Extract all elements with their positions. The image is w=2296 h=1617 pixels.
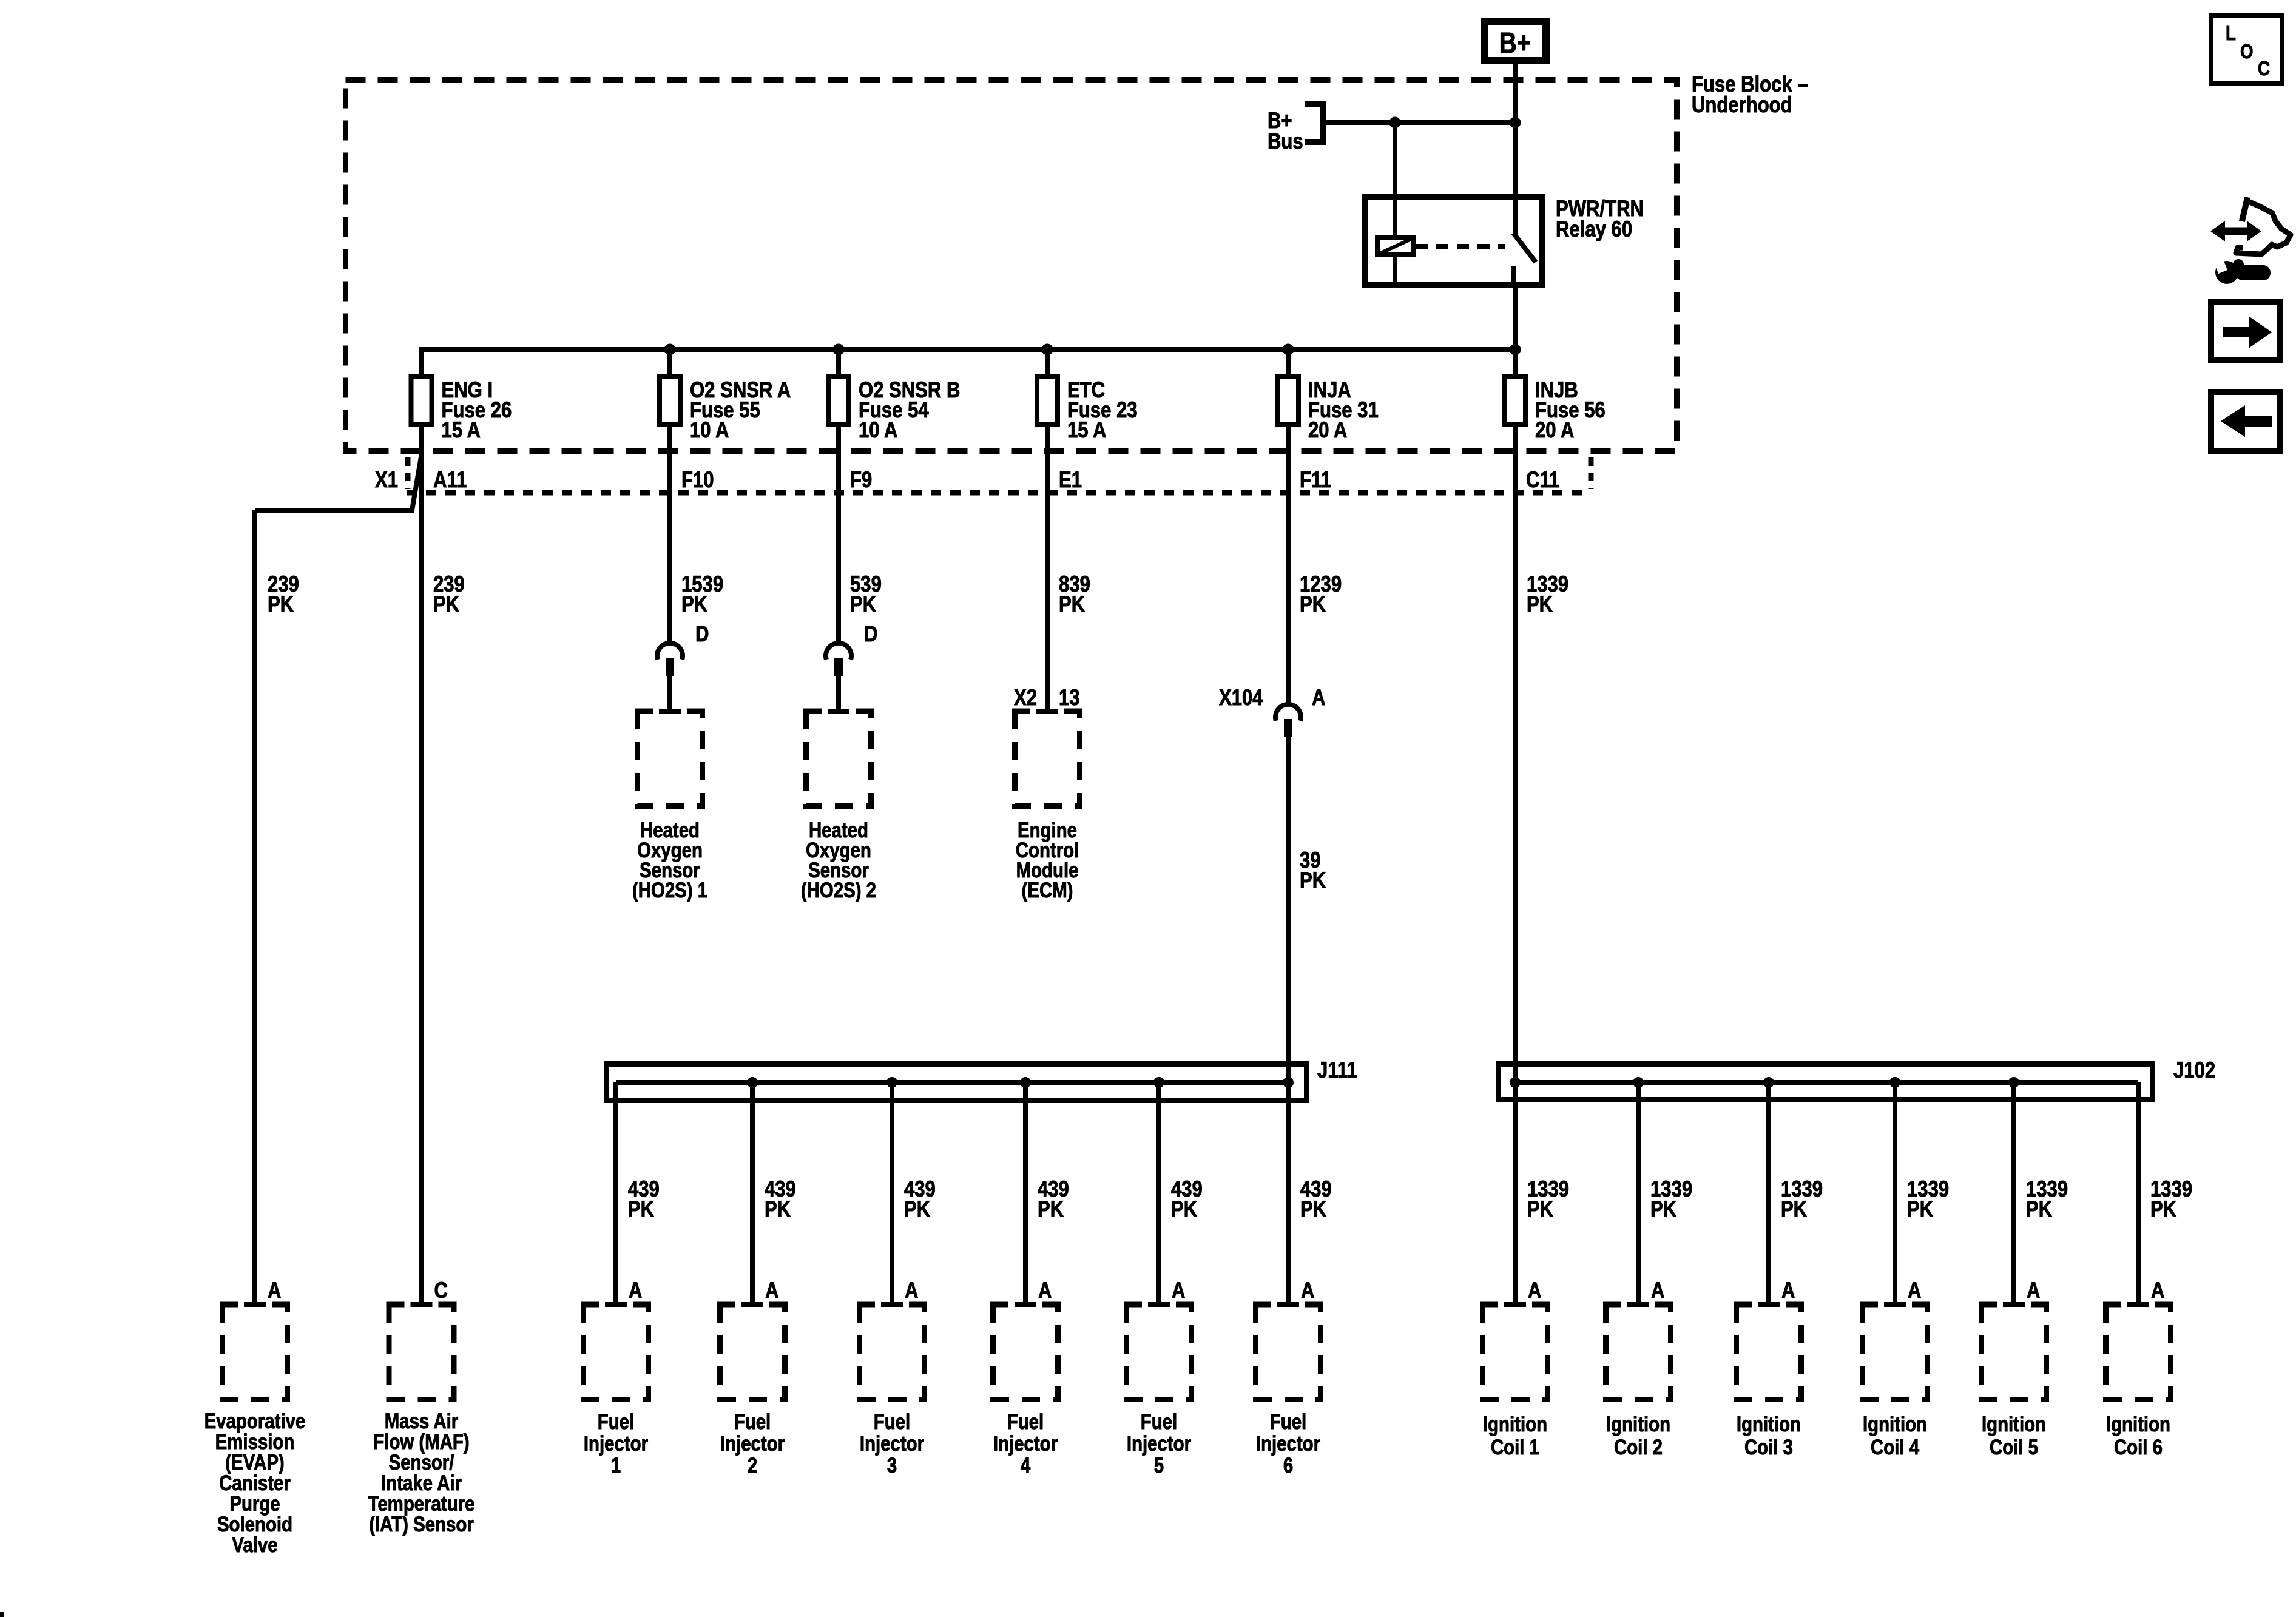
svg-text:Ignition: Ignition (1982, 1413, 2046, 1436)
svg-text:Injector: Injector (584, 1432, 649, 1456)
svg-text:D: D (864, 622, 877, 647)
svg-text:O: O (2240, 41, 2254, 63)
svg-text:Coil 1: Coil 1 (1491, 1436, 1539, 1459)
svg-text:PK: PK (433, 592, 459, 617)
svg-text:PK: PK (1907, 1197, 1933, 1222)
svg-text:Injector: Injector (720, 1432, 785, 1456)
svg-text:Ignition: Ignition (1737, 1413, 1801, 1436)
svg-text:A: A (629, 1278, 642, 1303)
svg-text:PK: PK (904, 1197, 930, 1222)
svg-text:PK: PK (1171, 1197, 1197, 1222)
svg-text:PK: PK (681, 592, 707, 617)
svg-text:A: A (1908, 1278, 1921, 1303)
svg-text:Fuel: Fuel (874, 1410, 910, 1434)
svg-text:(HO2S) 2: (HO2S) 2 (801, 879, 876, 902)
svg-text:4: 4 (1021, 1454, 1030, 1477)
svg-text:C: C (434, 1278, 448, 1303)
svg-text:A: A (1172, 1278, 1185, 1303)
svg-text:PK: PK (2026, 1197, 2052, 1222)
svg-text:Bus: Bus (1268, 129, 1303, 154)
svg-text:PK: PK (1300, 592, 1326, 617)
svg-text:A: A (1038, 1278, 1052, 1303)
svg-text:15 A: 15 A (1067, 418, 1106, 443)
svg-text:2: 2 (748, 1454, 757, 1477)
svg-text:A: A (905, 1278, 918, 1303)
svg-text:PK: PK (850, 592, 876, 617)
svg-text:J111: J111 (1317, 1058, 1357, 1083)
svg-text:1: 1 (611, 1454, 621, 1477)
svg-text:Underhood: Underhood (1692, 93, 1792, 118)
svg-text:PK: PK (1038, 1197, 1064, 1222)
svg-text:Relay 60: Relay 60 (1556, 217, 1632, 242)
svg-text:15 A: 15 A (442, 418, 481, 443)
svg-text:PK: PK (1059, 592, 1085, 617)
svg-text:Injector: Injector (993, 1432, 1058, 1456)
svg-text:C11: C11 (1526, 468, 1559, 493)
svg-text:Coil 3: Coil 3 (1744, 1436, 1793, 1459)
svg-text:Ignition: Ignition (1483, 1413, 1547, 1436)
svg-text:Fuel: Fuel (734, 1410, 771, 1434)
svg-text:PK: PK (765, 1197, 791, 1222)
svg-text:A: A (2027, 1278, 2040, 1303)
svg-text:13: 13 (1059, 686, 1080, 711)
svg-text:A: A (1301, 1278, 1314, 1303)
svg-text:E1: E1 (1059, 468, 1082, 493)
svg-text:X1: X1 (375, 468, 398, 493)
svg-text:PK: PK (1527, 592, 1553, 617)
svg-text:6: 6 (1283, 1454, 1293, 1477)
svg-text:PK: PK (268, 592, 294, 617)
svg-text:3: 3 (887, 1454, 897, 1477)
svg-text:20 A: 20 A (1535, 418, 1574, 443)
svg-text:20 A: 20 A (1308, 418, 1347, 443)
svg-text:PK: PK (1527, 1197, 1553, 1222)
svg-text:(IAT) Sensor: (IAT) Sensor (369, 1513, 474, 1536)
svg-text:Valve: Valve (232, 1533, 277, 1557)
svg-text:J102: J102 (2173, 1058, 2215, 1083)
svg-text:Ignition: Ignition (2106, 1413, 2170, 1436)
svg-text:10 A: 10 A (690, 418, 729, 443)
svg-text:D: D (695, 622, 709, 647)
svg-text:A11: A11 (433, 468, 467, 493)
svg-text:Fuel: Fuel (1270, 1410, 1306, 1434)
svg-text:A: A (1312, 686, 1325, 711)
svg-text:A: A (268, 1278, 281, 1303)
svg-text:Coil 5: Coil 5 (1990, 1436, 2038, 1459)
svg-text:Fuel: Fuel (598, 1410, 634, 1434)
svg-text:(HO2S) 1: (HO2S) 1 (632, 879, 707, 902)
svg-text:X104: X104 (1219, 686, 1263, 711)
svg-text:PK: PK (1650, 1197, 1676, 1222)
svg-text:A: A (1651, 1278, 1664, 1303)
svg-text:5: 5 (1154, 1454, 1164, 1477)
svg-text:Coil 2: Coil 2 (1614, 1436, 1663, 1459)
svg-text:Injector: Injector (860, 1432, 925, 1456)
svg-text:Ignition: Ignition (1606, 1413, 1670, 1436)
svg-text:Coil 6: Coil 6 (2114, 1436, 2163, 1459)
svg-text:Fuel: Fuel (1007, 1410, 1044, 1434)
svg-text:Injector: Injector (1127, 1432, 1192, 1456)
svg-text:L: L (2226, 22, 2236, 45)
svg-text:(ECM): (ECM) (1022, 879, 1073, 902)
svg-text:Ignition: Ignition (1863, 1413, 1927, 1436)
svg-text:A: A (2151, 1278, 2164, 1303)
svg-text:X2: X2 (1014, 686, 1037, 711)
svg-text:Coil 4: Coil 4 (1871, 1436, 1919, 1459)
svg-text:F11: F11 (1300, 468, 1331, 493)
svg-text:Fuel: Fuel (1141, 1410, 1177, 1434)
svg-text:B+: B+ (1499, 27, 1531, 59)
svg-text:PK: PK (2150, 1197, 2176, 1222)
svg-text:PK: PK (1300, 1197, 1326, 1222)
svg-text:Injector: Injector (1256, 1432, 1321, 1456)
svg-text:F9: F9 (850, 468, 872, 493)
svg-text:A: A (1781, 1278, 1795, 1303)
svg-text:F10: F10 (681, 468, 714, 493)
svg-text:PK: PK (1300, 868, 1326, 893)
svg-text:10 A: 10 A (859, 418, 897, 443)
svg-text:C: C (2258, 58, 2270, 80)
svg-text:A: A (1528, 1278, 1541, 1303)
svg-text:PK: PK (628, 1197, 654, 1222)
svg-text:PK: PK (1781, 1197, 1807, 1222)
svg-text:A: A (765, 1278, 778, 1303)
